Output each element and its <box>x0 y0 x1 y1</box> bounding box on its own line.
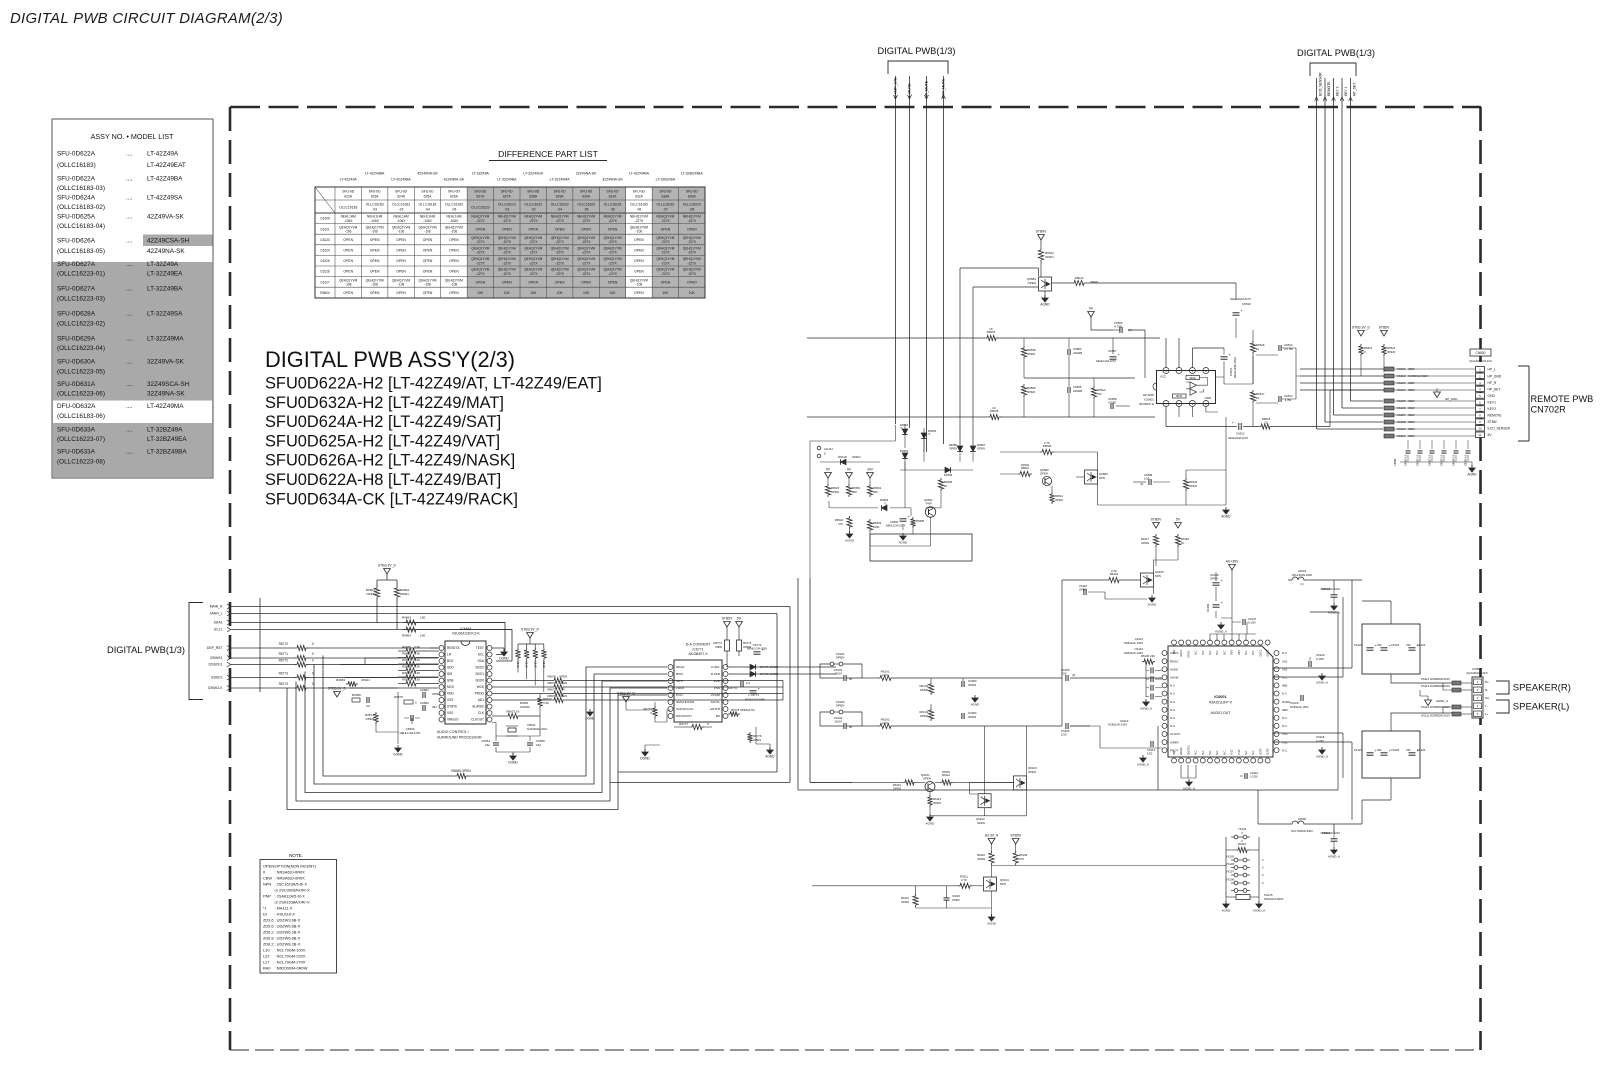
svg-text:9V: 9V <box>847 468 852 472</box>
svg-text:DGND: DGND <box>640 757 650 761</box>
svg-text:SDA1: SDA1 <box>214 621 223 625</box>
resistor R6101 4.7K <box>862 670 1062 681</box>
wire IC6771 left net <box>626 702 671 722</box>
wire bus x810 <box>810 578 852 782</box>
resistor R6106 22K <box>1141 654 1155 664</box>
svg-text:HB1: HB1 <box>1282 684 1288 688</box>
svg-text:4.7/50: 4.7/50 <box>1108 401 1116 405</box>
svg-text:R6691: R6691 <box>520 701 529 705</box>
svg-text:STBYb: STBYb <box>447 705 457 709</box>
svg-text:OPEN: OPEN <box>396 259 406 263</box>
svg-text:SDB: SDB <box>447 679 454 683</box>
svg-text:CLK: CLK <box>478 711 485 715</box>
svg-text:AGND_A: AGND_A <box>1316 681 1328 685</box>
resistor R6777 0 <box>674 722 712 730</box>
svg-text:....: .... <box>126 287 133 293</box>
resistor R6116 0 <box>1226 839 1259 853</box>
svg-text:NEHL9GM-227X: NEHL9GM-227X <box>1228 436 1248 440</box>
svg-text:ADJTL: ADJTL <box>711 700 721 704</box>
svg-text:D6506: D6506 <box>944 473 953 477</box>
svg-text:: UDZW8.2B-X: : UDZW8.2B-X <box>275 942 301 947</box>
svg-text:624A: 624A <box>397 194 406 198</box>
svg-text:D6581: D6581 <box>900 449 909 453</box>
svg-text:(OLLC16183-04): (OLLC16183-04) <box>57 223 105 230</box>
resistor R6112 OPEN <box>935 770 1014 785</box>
jumper ladder Y6104-Y6108 <box>1226 827 1259 898</box>
svg-text:LR: LR <box>447 653 452 657</box>
power 9V hp amp <box>1088 312 1095 318</box>
svg-text:-03: -03 <box>372 207 377 211</box>
wire hp amp bottom rail <box>807 416 1155 418</box>
svg-text:SFU-0D622A: SFU-0D622A <box>57 175 96 182</box>
resistor R6776 OPEN <box>747 732 762 743</box>
svg-text:10K: 10K <box>477 291 484 295</box>
svg-text:R6774: R6774 <box>279 682 289 686</box>
resistor R6110 OPEN vertical <box>977 844 994 865</box>
svg-text:OPEN: OPEN <box>559 681 567 685</box>
svg-text:OPEN: OPEN <box>1040 471 1048 475</box>
svg-text:C6115: C6115 <box>952 894 960 898</box>
ground DGND crystal <box>510 756 516 760</box>
wire C6106 to PROT region <box>1070 726 1162 748</box>
wire Q6583 output <box>1076 417 1226 505</box>
svg-text:VSS: VSS <box>447 711 453 715</box>
wire/net MAIN_R <box>210 604 790 609</box>
wire key/remote horizontal run to CN600 <box>1342 407 1383 409</box>
svg-text:R6677: R6677 <box>547 688 556 692</box>
svg-text:....: .... <box>126 449 133 455</box>
svg-text:....: .... <box>126 176 133 182</box>
svg-text:42Z49NA-SK: 42Z49NA-SK <box>417 172 438 176</box>
svg-text:-03: -03 <box>504 207 509 211</box>
svg-text:-227X: -227X <box>608 261 617 265</box>
power STB3.3V_D near IC6661 <box>334 692 341 698</box>
resistor R6503 100K vertical <box>867 519 881 532</box>
svg-text:R6676: R6676 <box>547 675 556 679</box>
svg-text:Y6105: Y6105 <box>1226 855 1235 859</box>
svg-text:C6582: C6582 <box>1393 458 1397 466</box>
svg-text:HB2: HB2 <box>1282 708 1288 712</box>
svg-text:....: .... <box>126 382 133 388</box>
svg-text:LT-42Z49BA: LT-42Z49BA <box>365 172 385 176</box>
wire Q6584 lower feed from D6587 <box>973 287 1039 446</box>
svg-text:0.1: 0.1 <box>746 681 750 685</box>
wire long verticals mid right <box>828 667 862 726</box>
wire/net I2SSCK1 <box>209 662 438 667</box>
resistor R6663 100 <box>402 616 426 626</box>
svg-text:461: 461 <box>432 705 437 709</box>
svg-text:OPEN: OPEN <box>343 259 353 263</box>
ground AGND q-cluster <box>1223 510 1229 514</box>
svg-text:-227X: -227X <box>608 219 617 223</box>
svg-text:NJU26412EVC2-K: NJU26412EVC2-K <box>452 632 480 636</box>
svg-text:R+: R+ <box>1485 680 1489 684</box>
svg-text:N.C.: N.C. <box>1223 650 1226 655</box>
svg-text:OPEN: OPEN <box>753 738 761 742</box>
svg-text:(OLLC16183-02): (OLLC16183-02) <box>57 204 105 211</box>
ground AGND_A left of IC6001 <box>1143 702 1149 706</box>
svg-text:N.C.: N.C. <box>1245 750 1248 755</box>
wire rails cluster <box>810 425 973 578</box>
ferrite bead KS103 <box>1300 381 1475 385</box>
svg-text:N.C.: N.C. <box>1170 716 1176 720</box>
svg-text:HP_DET: HP_DET <box>1353 83 1357 96</box>
svg-text:-02: -02 <box>399 207 404 211</box>
svg-text:OPEN: OPEN <box>502 280 512 284</box>
svg-text:32Z49SCA-SH: 32Z49SCA-SH <box>147 381 190 388</box>
svg-text:3.3K: 3.3K <box>414 665 420 669</box>
svg-text:330: 330 <box>1406 643 1411 647</box>
jumper Y6102 OPEN <box>827 700 846 714</box>
svg-text:STB5V: STB5V <box>1010 834 1021 838</box>
ground AGND between C6183/C6184 <box>972 698 978 702</box>
svg-text:I2SWS1: I2SWS1 <box>210 656 223 660</box>
left pin caps IC6001 <box>1146 662 1162 700</box>
svg-text:DIGITAL PWB ASS'Y(2/3): DIGITAL PWB ASS'Y(2/3) <box>265 347 515 372</box>
svg-text:-227X: -227X <box>555 251 564 255</box>
svg-text:NX3225SA-2D/U: NX3225SA-2D/U <box>527 727 547 731</box>
svg-text:CN6L8: CN6L8 <box>1472 667 1482 671</box>
resistor R6772 0 <box>279 659 314 668</box>
svg-text:OPEN: OPEN <box>920 714 928 718</box>
wire R6614 to C6510 <box>1235 283 1237 300</box>
svg-text:3.3K: 3.3K <box>414 652 420 656</box>
svg-text:-108: -108 <box>636 283 643 287</box>
svg-text:LT-42Z49SA: LT-42Z49SA <box>147 195 183 202</box>
svg-text:OPEN: OPEN <box>400 592 409 596</box>
svg-text:VSS: VSS <box>714 686 720 690</box>
svg-text:SFU-0D: SFU-0D <box>369 190 382 194</box>
svg-text:(OLLC16223-02): (OLLC16223-02) <box>57 320 105 327</box>
svg-text:N.C.: N.C. <box>1195 650 1198 655</box>
svg-text:ACKS/CCLK: ACKS/CCLK <box>676 707 694 711</box>
svg-text:HP_DET: HP_DET <box>1488 387 1501 391</box>
dashed board boundary frame <box>230 107 1481 1050</box>
svg-text:SFU-0D633A: SFU-0D633A <box>57 426 96 433</box>
svg-text:L-: L- <box>1485 704 1488 708</box>
ground AGND below Q6584 <box>1042 298 1048 302</box>
diode D6501 *1 vertical <box>900 423 909 448</box>
svg-text:SFU-0D625A: SFU-0D625A <box>57 214 96 221</box>
svg-text:OPEN: OPEN <box>449 238 459 242</box>
svg-text:DVDD: DVDD <box>1282 700 1290 704</box>
svg-text:C6510: C6510 <box>1242 302 1251 306</box>
svg-text:9V: 9V <box>1089 307 1094 311</box>
svg-text:C6125: C6125 <box>320 259 330 263</box>
bracket top-left connector <box>888 61 948 74</box>
ground DGND IC6771 <box>642 752 648 756</box>
capacitor C6771 electrolytic <box>745 686 765 702</box>
svg-text:+ C6771: + C6771 <box>748 693 759 697</box>
svg-text:OPEN: OPEN <box>559 675 567 679</box>
svg-text:IC6771: IC6771 <box>693 648 704 652</box>
svg-text:4.7/50: 4.7/50 <box>1114 325 1122 329</box>
svg-text:: NCL79GM-270X: : NCL79GM-270X <box>275 960 306 965</box>
svg-text:STB3.3V_D: STB3.3V_D <box>378 564 396 568</box>
power rail 24V <box>867 473 874 479</box>
wire R6662 to SCL1 <box>396 599 398 630</box>
svg-text:OPEN: OPEN <box>432 692 441 696</box>
svg-text:TEST: TEST <box>476 646 484 650</box>
svg-text:50: 50 <box>849 677 853 681</box>
svg-text:1K: 1K <box>1256 396 1260 400</box>
ground AGND under Q6104 <box>988 917 994 921</box>
svg-text:.1 /50: .1 /50 <box>1284 398 1292 402</box>
svg-text:OPEN: OPEN <box>449 249 459 253</box>
svg-text:42Z49VA-SK: 42Z49VA-SK <box>147 214 185 221</box>
svg-text:1K: 1K <box>1181 541 1185 545</box>
svg-text:-227X: -227X <box>503 240 512 244</box>
svg-text:MCK: MCK <box>447 685 455 689</box>
svg-text:D-AMP_STB: D-AMP_STB <box>894 77 898 98</box>
svg-text:OPEN: OPEN <box>1079 587 1087 591</box>
svg-text:OPEN: OPEN <box>1028 770 1036 774</box>
svg-text:1K: 1K <box>989 327 993 331</box>
svg-text:R6667: R6667 <box>402 658 411 662</box>
svg-text:OPEN: OPEN <box>608 227 618 231</box>
svg-text:....: .... <box>126 404 133 410</box>
wire digital audio loop 5 <box>323 656 667 777</box>
svg-text:ZD6.2: ZD6.2 <box>263 930 274 935</box>
svg-text:C6114: C6114 <box>1147 748 1155 752</box>
svg-text:OPEN: OPEN <box>836 656 845 660</box>
svg-text:....: .... <box>126 196 133 202</box>
svg-text:4.7K: 4.7K <box>882 673 888 677</box>
wire key/remote vertical run <box>1341 107 1343 408</box>
svg-text:C6580 0.1: C6580 0.1 <box>1405 454 1408 466</box>
diode D6586 OPEN <box>949 443 963 452</box>
svg-text:SFU-0D627A: SFU-0D627A <box>57 261 96 268</box>
svg-text:-227X: -227X <box>608 251 617 255</box>
svg-text:OPEN: OPEN <box>920 688 928 692</box>
svg-text:KEY 1: KEY 1 <box>1344 86 1348 96</box>
svg-text:R6778 OPEN(47K): R6778 OPEN(47K) <box>731 708 755 712</box>
power AU+35V <box>1229 565 1236 571</box>
diode D6587 OPEN <box>970 443 985 452</box>
svg-text:QGA2661C8-6KX: QGA2661C8-6KX <box>1466 671 1488 675</box>
jumper Y6107 0 <box>1226 870 1264 878</box>
svg-text:-106: -106 <box>636 230 643 234</box>
svg-text:C6121: C6121 <box>1354 643 1363 647</box>
capacitor C6116 0.1/50 <box>1240 771 1258 779</box>
ground AGND_A right of IC6001 a <box>1319 676 1325 680</box>
svg-text:10K: 10K <box>689 291 696 295</box>
jumper Y6101 OPEN <box>827 652 846 666</box>
capacitor C6661 OPEN <box>420 688 441 698</box>
svg-text:-106X: -106X <box>397 219 406 223</box>
svg-text:32Z49NA-SK: 32Z49NA-SK <box>576 172 597 176</box>
capacitor C6102 19/19 <box>834 716 853 729</box>
svg-text:SFU0D632A-H2 [LT-42Z49/MAT]: SFU0D632A-H2 [LT-42Z49/MAT] <box>265 394 504 412</box>
svg-text:MF02: MF02 <box>1190 377 1197 380</box>
svg-text:-06: -06 <box>637 207 642 211</box>
svg-text:OPEN: OPEN <box>370 249 380 253</box>
svg-text:N.C.: N.C. <box>1209 750 1212 755</box>
svg-text:OPEN: OPEN <box>528 280 538 284</box>
resistor R6679 OPEN <box>547 694 783 703</box>
wire/net I2SMCLK <box>208 686 438 691</box>
svg-text:N.C.: N.C. <box>1252 650 1255 655</box>
svg-text:C6121: C6121 <box>320 227 330 231</box>
wire hp amp pins down <box>1179 407 1218 418</box>
resistor R6103 OPEN <box>919 678 933 695</box>
op-amp IC6661 audio control / surround processor <box>437 627 492 740</box>
svg-text:: 2SC1623A/5-6/-X: : 2SC1623A/5-6/-X <box>275 882 308 887</box>
svg-text:-227X: -227X <box>555 219 564 223</box>
photocoupler Q6104 NPN <box>984 877 1010 891</box>
svg-text:-227X: -227X <box>503 251 512 255</box>
ferrite bead KS102 <box>1300 374 1475 378</box>
svg-text:OPEN: OPEN <box>952 898 960 902</box>
svg-text:ZD6.8: ZD6.8 <box>263 936 274 941</box>
svg-text:N.C.: N.C. <box>1216 750 1219 755</box>
svg-text:3.3K: 3.3K <box>414 645 420 649</box>
svg-text:R6669: R6669 <box>402 671 411 675</box>
svg-text:L+: L+ <box>1485 712 1489 716</box>
svg-text:-227X: -227X <box>529 219 538 223</box>
svg-text:(OLLC16223-04): (OLLC16223-04) <box>57 345 105 352</box>
svg-text:LT-42Z49A: LT-42Z49A <box>340 178 358 182</box>
svg-text:(OLLC16223-08): (OLLC16223-08) <box>57 458 105 465</box>
svg-text:OPEN: OPEN <box>977 446 985 450</box>
svg-text:10K: 10K <box>609 291 616 295</box>
svg-text:STB3.3V_D: STB3.3V_D <box>521 628 539 632</box>
svg-text:32Z49VA-SK: 32Z49VA-SK <box>147 358 185 365</box>
svg-text:(OLLC16183): (OLLC16183) <box>57 162 96 169</box>
wire filter R to speaker <box>1362 601 1452 683</box>
svg-text:R6604: R6604 <box>320 291 330 295</box>
svg-text:DIGITAL PWB CIRCUIT DIAGRAM(2/: DIGITAL PWB CIRCUIT DIAGRAM(2/3) <box>10 11 283 27</box>
svg-text:NPN: NPN <box>1155 574 1161 578</box>
svg-text:C6110: C6110 <box>1079 584 1087 588</box>
svg-text:C6109: C6109 <box>320 217 330 221</box>
svg-text:OPEN: OPEN <box>893 786 901 790</box>
wire/net DSP_RST <box>207 646 438 651</box>
svg-text:47K: 47K <box>1019 857 1024 861</box>
svg-text:LT-42Z49MA: LT-42Z49MA <box>629 172 650 176</box>
svg-text:-227X: -227X <box>476 240 485 244</box>
svg-text:OPEN: OPEN <box>923 777 931 781</box>
svg-text:5V: 5V <box>826 468 831 472</box>
svg-text:AGND_A: AGND_A <box>1436 699 1448 703</box>
power rail 5V <box>825 473 832 479</box>
wire/net I2SSD1 <box>211 675 438 680</box>
pullup resistor cluster R6674-R6677 x4 <box>515 638 546 668</box>
capacitor C6511 electrolytic NEHL1CM-47EX <box>1221 348 1238 378</box>
svg-text:SFU-0D629A: SFU-0D629A <box>57 336 96 343</box>
wire loop link horizontals <box>610 772 790 782</box>
svg-text:SDI: SDI <box>447 672 452 676</box>
wire pullup rail <box>377 574 397 586</box>
svg-text:L6001: L6001 <box>1298 569 1307 573</box>
svg-text:OPEN: OPEN <box>1141 541 1149 545</box>
svg-text:DGND: DGND <box>393 753 403 757</box>
svg-text:627A: 627A <box>503 194 512 198</box>
svg-text:R6685 OPEN: R6685 OPEN <box>451 769 471 773</box>
svg-text:-227X: -227X <box>529 272 538 276</box>
svg-text:L6002: L6002 <box>1298 817 1307 821</box>
capacitor C6115 OPEN <box>944 886 961 908</box>
svg-text:SFU0D625A-H2 [LT-42Z49/VAT]: SFU0D625A-H2 [LT-42Z49/VAT] <box>265 432 500 450</box>
svg-text:-04: -04 <box>557 207 562 211</box>
wire digital audio loop 4 <box>314 665 667 785</box>
resistor R6666 3.3K <box>398 652 439 660</box>
wire pullups to SDO lines <box>518 660 544 692</box>
svg-text:C6126: C6126 <box>1417 748 1426 752</box>
capacitor C6118 0.1/50 label <box>1316 735 1325 743</box>
svg-text:V2H: V2H <box>1231 650 1234 655</box>
capacitor C6506 4.7/50 <box>1113 321 1132 333</box>
resistor R6114 OPEN vertical <box>927 792 941 816</box>
wire/net KEY 2 <box>1332 78 1340 107</box>
svg-text:OPEN: OPEN <box>555 280 565 284</box>
resistor R6104 OPEN <box>919 704 933 721</box>
wire SCL1 cont <box>418 630 512 662</box>
svg-text:LT-42Z49EAT: LT-42Z49EAT <box>147 162 186 169</box>
photocoupler Q6102 OPEN <box>976 794 991 825</box>
svg-text:ASSY NO. • MODEL LIST: ASSY NO. • MODEL LIST <box>91 132 174 141</box>
svg-text:SLAVEb: SLAVEb <box>472 705 484 709</box>
crystal X6661 <box>506 723 547 736</box>
svg-text:DIFO/CDTI: DIFO/CDTI <box>676 714 692 718</box>
svg-text:N.C.: N.C. <box>1170 692 1176 696</box>
resistor R6696 + capacitor C6666 <box>352 693 370 708</box>
svg-text:VS1: VS1 <box>1282 659 1288 663</box>
svg-text:AD1: AD1 <box>478 698 484 702</box>
svg-text:DFU-0D632A: DFU-0D632A <box>57 403 96 410</box>
svg-text:OUT2: OUT2 <box>1267 748 1270 755</box>
wire digital audio loop 1 <box>287 688 667 810</box>
power 5V low <box>1175 523 1182 529</box>
svg-text:Y6104: Y6104 <box>1238 827 1247 831</box>
power 5V for IC6771 <box>736 622 743 628</box>
svg-text:OPEN: OPEN <box>1045 255 1054 259</box>
diode D6504b *1 vertical <box>921 428 936 452</box>
svg-text:NPN: NPN <box>1000 882 1006 886</box>
svg-text:C6512: C6512 <box>1236 432 1245 436</box>
capacitor C6117 NCB21EK-224X <box>1321 830 1341 848</box>
resistor R6512 OPEN vertical <box>1038 240 1054 262</box>
resistor R6682 3.3K <box>398 678 439 686</box>
wire/net I2SWS1 <box>210 656 438 661</box>
svg-text:R6771: R6771 <box>279 652 289 656</box>
resistor R6774 0 <box>279 682 314 691</box>
svg-text:AUDIO CONTROL /: AUDIO CONTROL / <box>437 730 469 734</box>
inductor L6001 NCLF36/W-330X <box>1288 569 1312 586</box>
svg-text:OPEN: OPEN <box>634 249 644 253</box>
svg-text:AGND: AGND <box>1467 473 1477 477</box>
svg-text:SFU-0D627A: SFU-0D627A <box>57 286 96 293</box>
svg-text:R6106 22K: R6106 22K <box>1141 654 1155 658</box>
svg-text:HP_L: HP_L <box>1488 368 1496 372</box>
resistor R6662 OPEN <box>394 586 409 599</box>
svg-text:OLLC16183: OLLC16183 <box>366 203 384 207</box>
resistor R6112b OPEN vertical <box>901 886 918 907</box>
wire key/remote vertical run <box>1333 107 1335 415</box>
wire key/remote horizontal run to CN600 <box>1351 400 1384 402</box>
svg-text:HP_GND: HP_GND <box>1488 374 1502 378</box>
svg-text:2200/B: 2200/B <box>1073 389 1082 393</box>
svg-text:*1: *1 <box>884 502 887 506</box>
svg-text:OPEN: OPEN <box>365 717 374 721</box>
svg-text:-108: -108 <box>451 283 458 287</box>
svg-text:LT-32Z49MA: LT-32Z49MA <box>147 336 184 343</box>
resistor R6669 3.3K <box>398 671 439 679</box>
capacitor C6113 NCB11AK-106X <box>1090 719 1162 727</box>
svg-text:R6684: R6684 <box>336 678 345 682</box>
svg-text:SDA: SDA <box>477 659 484 663</box>
svg-text:SFU-0D630A: SFU-0D630A <box>57 358 96 365</box>
